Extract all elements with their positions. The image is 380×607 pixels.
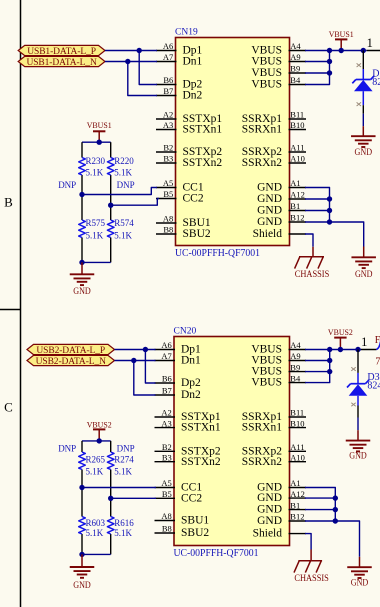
wire to off-sheet (black) (361, 349, 376, 351)
pin B2 (SSTXp2) (155, 450, 176, 452)
wire GND pin A12 (305, 198, 330, 200)
svg-text:B2: B2 (162, 442, 172, 452)
junction GND B12 (327, 219, 332, 224)
svg-text:GND: GND (257, 193, 282, 205)
pin B9 (VBUS) (289, 72, 307, 74)
svg-text:B11: B11 (290, 408, 304, 418)
junction VBUS bus B9 (327, 369, 332, 374)
pin B2 (SSTXp2) (156, 151, 177, 153)
wire CC1 from divider (82, 487, 156, 489)
pin A9 (VBUS) (289, 360, 307, 362)
svg-text:GND: GND (257, 182, 282, 194)
svg-text:5.1K: 5.1K (86, 528, 104, 538)
svg-text:SSRXn2: SSRXn2 (242, 157, 283, 169)
resistor R575 5.1K (81, 195, 83, 221)
junction on Dp1 wire (143, 347, 148, 352)
svg-text:A12: A12 (290, 190, 305, 200)
wire GND pin B1 (305, 509, 335, 511)
svg-text:GND: GND (73, 286, 91, 296)
svg-text:R575: R575 (86, 218, 106, 228)
svg-text:A7: A7 (161, 351, 171, 361)
svg-text:B11: B11 (290, 110, 304, 120)
junction GND B1 (327, 208, 332, 213)
pin B12 (GND) (289, 520, 307, 522)
pin A4 (VBUS) (289, 50, 307, 52)
junction bottom rail (79, 552, 84, 557)
wire divider bottom rail (82, 261, 111, 263)
junction VBUS bus A9 (327, 59, 332, 64)
svg-text:A1: A1 (290, 478, 300, 488)
svg-text:GND: GND (257, 515, 282, 527)
svg-text:SBU1: SBU1 (181, 515, 209, 527)
svg-text:A3: A3 (161, 418, 171, 428)
wire TVS anode to ground (362, 91, 364, 105)
svg-text:A6: A6 (161, 340, 171, 350)
svg-text:SBU2: SBU2 (181, 527, 209, 539)
pin B12 (GND) (289, 221, 307, 223)
svg-text:VBUS2: VBUS2 (328, 327, 353, 337)
svg-text:VBUS: VBUS (251, 67, 282, 79)
svg-text:5.1K: 5.1K (86, 466, 104, 476)
wire resistor top rail (82, 141, 111, 143)
junction CC1 (79, 192, 84, 197)
svg-text:B4: B4 (290, 373, 301, 383)
svg-text:B3: B3 (163, 154, 173, 164)
wire GND bus to ground (330, 222, 364, 247)
svg-text:1: 1 (361, 335, 367, 349)
sheet border zone divider (0, 309, 21, 311)
junction on Dp1 wire (137, 48, 142, 53)
pin A2 (SSTXp1) (155, 416, 176, 418)
pin A1 (GND) (289, 487, 307, 489)
svg-text:B3: B3 (162, 452, 172, 462)
pin B4 (VBUS) (289, 382, 307, 384)
svg-text:UC-00PFFH-QF7001: UC-00PFFH-QF7001 (174, 548, 259, 559)
wire GND pin B12 (305, 221, 330, 223)
ground GND (connector) (359, 566, 361, 568)
wire VBUS pin B4 (305, 51, 330, 85)
pin A8 (SBU1) (156, 222, 177, 224)
svg-text:A9: A9 (290, 351, 300, 361)
svg-text:CHASSIS: CHASSIS (294, 574, 329, 584)
svg-text:R574: R574 (114, 218, 134, 228)
wire GND pin A12 (305, 497, 335, 499)
svg-text:USB1-DATA-L_N: USB1-DATA-L_N (26, 58, 96, 68)
svg-text:A11: A11 (290, 143, 304, 153)
svg-text:824: 824 (367, 381, 380, 392)
svg-text:SSTXn1: SSTXn1 (181, 422, 221, 434)
wire to off-sheet (black) (367, 50, 380, 52)
svg-text:SSRXn1: SSRXn1 (242, 422, 283, 434)
svg-text:A10: A10 (290, 154, 305, 164)
pin B5 (CC2) (155, 497, 176, 499)
power port VBUS2 (right) (334, 337, 346, 339)
svg-text:B10: B10 (290, 418, 304, 428)
svg-text:C: C (4, 400, 13, 415)
pin A11 (SSRXp2) (289, 450, 307, 452)
pin B6 (Dp2) (155, 382, 176, 384)
svg-text:B9: B9 (290, 362, 300, 372)
junction at TVS branch (355, 347, 360, 352)
wire VBUS to TVS D33 (357, 350, 359, 373)
svg-text:A4: A4 (290, 340, 301, 350)
svg-text:B4: B4 (290, 75, 301, 85)
svg-text:VBUS1: VBUS1 (87, 120, 112, 130)
svg-text:Shield: Shield (253, 528, 283, 540)
junction GND A12 (333, 495, 338, 500)
wire VBUS pin B4 (305, 350, 330, 383)
pin B9 (VBUS) (289, 371, 307, 373)
svg-text:A5: A5 (163, 178, 173, 188)
svg-text:SSRXn2: SSRXn2 (242, 456, 283, 468)
connector CN20 UC-00PFFH-QF7001 (174, 337, 290, 546)
junction GND A12 (327, 196, 332, 201)
pin A6 (Dp1) (155, 349, 176, 351)
wire tap to Dp2 (139, 51, 157, 85)
junction VBUS bus B9 (327, 70, 332, 75)
svg-text:B5: B5 (162, 489, 172, 499)
svg-text:B9: B9 (290, 64, 300, 74)
wire GND pin A1 (305, 188, 330, 223)
svg-text:B5: B5 (163, 189, 173, 199)
svg-text:DNP: DNP (117, 443, 135, 453)
svg-text:GND: GND (257, 504, 282, 516)
wire Shield to chassis (305, 534, 311, 550)
resistor R230 5.1K (DNP) (81, 142, 83, 157)
pin B1 (GND) (289, 210, 307, 212)
wire GND pin A1 (305, 488, 335, 522)
pin A7 (Dn1) (155, 360, 176, 362)
pin B4 (VBUS) (289, 84, 307, 86)
svg-text:CN20: CN20 (174, 327, 197, 337)
svg-text:Dn1: Dn1 (181, 355, 201, 367)
svg-text:GND: GND (355, 147, 373, 157)
svg-text:B7: B7 (163, 86, 173, 96)
pin A3 (SSTXn1) (156, 129, 177, 131)
junction GND B1 (333, 507, 338, 512)
junction at power stub (339, 48, 344, 53)
pin A10 (SSRXn2) (289, 162, 307, 164)
junction top rail (97, 438, 102, 443)
svg-text:R230: R230 (86, 156, 106, 166)
svg-text:A1: A1 (290, 178, 300, 188)
wire GND pin B12 (305, 520, 335, 522)
pin A8 (SBU1) (155, 520, 176, 522)
power port VBUS1 (left) (93, 130, 105, 132)
svg-text:A8: A8 (163, 214, 173, 224)
svg-text:A2: A2 (161, 408, 171, 418)
pin B10 (SSRXn1) (289, 427, 307, 429)
svg-text:SSTXn1: SSTXn1 (183, 124, 223, 136)
connector CN19 UC-00PFFH-QF7001 (176, 38, 290, 246)
svg-text:B2: B2 (163, 143, 173, 153)
pin B3 (SSTXn2) (155, 461, 176, 463)
pin A4 (VBUS) (289, 349, 307, 351)
svg-text:Dn2: Dn2 (181, 389, 201, 401)
junction on Dn1 wire (125, 59, 130, 64)
pin B5 (CC2) (156, 198, 177, 200)
svg-text:R616: R616 (114, 518, 134, 528)
wire VBUS to TVS D24 (362, 51, 364, 70)
svg-text:Dp2: Dp2 (181, 377, 201, 389)
wire TVS anode to ground (357, 396, 359, 406)
pin B7 (Dn2) (156, 95, 177, 97)
svg-text:GND: GND (257, 205, 282, 217)
svg-text:CC2: CC2 (183, 193, 204, 205)
off-sheet connector arc (376, 342, 380, 350)
wire resistor top rail (82, 440, 111, 442)
wire CC2 from divider (111, 199, 159, 206)
svg-text:R265: R265 (86, 454, 106, 464)
port USB2-DATA-L_N (27, 355, 115, 365)
svg-text:GND: GND (351, 577, 369, 587)
wire USB1-DATA-L_N to Dn1 (105, 61, 157, 63)
svg-text:USB2-DATA-L_P: USB2-DATA-L_P (36, 346, 105, 356)
svg-text:CC2: CC2 (181, 492, 202, 504)
svg-text:GND: GND (73, 580, 91, 590)
svg-text:B1: B1 (290, 201, 300, 211)
svg-text:R220: R220 (114, 156, 134, 166)
pin A3 (SSTXn1) (155, 427, 176, 429)
wire VBUS pin B9 (305, 72, 330, 74)
svg-text:B8: B8 (163, 225, 173, 235)
svg-text:SSTXn2: SSTXn2 (183, 157, 223, 169)
svg-text:VBUS2: VBUS2 (87, 419, 112, 429)
svg-text:5.1K: 5.1K (114, 466, 132, 476)
svg-text:A5: A5 (161, 478, 171, 488)
junction on Dn1 wire (131, 358, 136, 363)
svg-text:B8: B8 (162, 524, 172, 534)
wire USB2-DATA-L_P to Dp1 (115, 349, 156, 351)
svg-text:Dn1: Dn1 (183, 56, 203, 68)
svg-text:UC-00PFFH-QF7001: UC-00PFFH-QF7001 (175, 248, 260, 259)
pin B11 (SSRXp1) (289, 416, 307, 418)
svg-text:VBUS: VBUS (251, 56, 282, 68)
junction GND B12 (333, 518, 338, 523)
svg-text:SSTXn2: SSTXn2 (181, 456, 221, 468)
svg-text:B12: B12 (290, 512, 304, 522)
svg-text:GND: GND (257, 492, 282, 504)
pin A12 (GND) (289, 497, 307, 499)
wire CC2 from divider (111, 497, 156, 499)
pin A5 (CC1) (155, 487, 176, 489)
svg-text:B7: B7 (162, 386, 172, 396)
pin B7 (Dn2) (155, 394, 176, 396)
svg-text:824: 824 (372, 77, 380, 88)
svg-text:5.1K: 5.1K (114, 167, 132, 177)
junction VBUS bus A4 (327, 347, 332, 352)
svg-text:GND: GND (355, 269, 373, 279)
svg-text:B6: B6 (163, 75, 173, 85)
wire VBUS2 rail (330, 349, 361, 351)
svg-text:1: 1 (367, 36, 373, 50)
svg-text:R603: R603 (86, 518, 106, 528)
pin Shield (Shield) (289, 233, 307, 235)
svg-text:A12: A12 (290, 489, 305, 499)
junction CC1 (79, 485, 84, 490)
junction at power stub (338, 347, 343, 352)
svg-text:VBUS1: VBUS1 (329, 29, 354, 39)
resistor R274 5.1K (DNP) (110, 441, 112, 452)
svg-text:USB2-DATA-L_N: USB2-DATA-L_N (36, 357, 106, 367)
svg-text:A7: A7 (163, 52, 173, 62)
wire USB2-DATA-L_N to Dn1 (115, 360, 156, 362)
ground GND (connector) (363, 256, 365, 258)
svg-text:Shield: Shield (253, 228, 283, 240)
junction VBUS bus A9 (327, 358, 332, 363)
pin A11 (SSRXp2) (289, 151, 307, 153)
pin Shield (Shield) (289, 533, 307, 535)
TVS zener diode D24 (356, 79, 371, 81)
pin B8 (SBU2) (156, 233, 177, 235)
ground GND (divider) (81, 554, 83, 567)
svg-text:5.1K: 5.1K (114, 528, 132, 538)
wire CC1 from divider (82, 188, 157, 195)
svg-text:B6: B6 (162, 374, 172, 384)
resistor R574 5.1K (110, 205, 112, 220)
svg-text:GND: GND (257, 216, 282, 228)
wire VBUS pin A9 (305, 61, 330, 63)
svg-text:USB1-DATA-L_P: USB1-DATA-L_P (27, 47, 96, 57)
svg-text:A2: A2 (163, 110, 173, 120)
wire tap to Dp2 (145, 350, 155, 384)
svg-text:5.1K: 5.1K (86, 231, 104, 241)
ground GND (TVS) (357, 430, 359, 440)
pin A5 (CC1) (156, 187, 177, 189)
junction bottom rail (79, 260, 84, 265)
ground GND (TVS) (362, 126, 364, 136)
svg-text:SSRXn1: SSRXn1 (242, 124, 283, 136)
junction at TVS branch (361, 48, 366, 53)
power port VBUS1 (right) (335, 38, 347, 40)
svg-text:CN19: CN19 (175, 28, 198, 38)
wire Shield to chassis (305, 234, 313, 247)
wire tap to Dn2 (128, 62, 157, 96)
svg-text:B10: B10 (290, 120, 304, 130)
pin B8 (SBU2) (155, 532, 176, 534)
svg-text:F: F (375, 335, 380, 346)
pin A10 (SSRXn2) (289, 461, 307, 463)
wire USB1-DATA-L_P to Dp1 (105, 50, 157, 52)
svg-text:7-: 7- (375, 357, 380, 368)
svg-text:A10: A10 (290, 452, 305, 462)
svg-text:A4: A4 (290, 41, 301, 51)
svg-text:A3: A3 (163, 120, 173, 130)
svg-text:VBUS: VBUS (251, 377, 282, 389)
pin B6 (Dp2) (156, 84, 177, 86)
svg-text:A9: A9 (290, 52, 300, 62)
junction CC2 (108, 496, 113, 501)
pin A2 (SSTXp1) (156, 118, 177, 120)
resistor R265 5.1K (DNP) (81, 441, 83, 452)
svg-text:CHASSIS: CHASSIS (295, 270, 330, 280)
junction CC2 (108, 203, 113, 208)
port USB1-DATA-L_N (18, 56, 105, 66)
ground GND (divider) (81, 262, 83, 274)
wire VBUS pin A9 (305, 360, 330, 362)
svg-text:B: B (4, 195, 13, 210)
power port VBUS2 (left) (93, 428, 105, 430)
svg-text:DNP: DNP (58, 443, 76, 453)
pin B11 (SSRXp1) (289, 118, 307, 120)
junction top rail (97, 140, 102, 145)
wire divider bottom rail (82, 553, 111, 555)
svg-text:B12: B12 (290, 213, 304, 223)
pin B1 (GND) (289, 509, 307, 511)
pin B10 (SSRXn1) (289, 129, 307, 131)
svg-text:DNP: DNP (117, 180, 135, 190)
chassis ground CHASSIS (310, 550, 312, 561)
sheet border vertical line (20, 0, 22, 607)
svg-text:A11: A11 (290, 442, 304, 452)
pin A7 (Dn1) (156, 61, 177, 63)
svg-text:A6: A6 (163, 41, 173, 51)
svg-text:5.1K: 5.1K (86, 167, 104, 177)
chassis ground CHASSIS (312, 247, 314, 257)
resistor R616 5.1K (110, 498, 112, 516)
svg-text:A8: A8 (161, 511, 171, 521)
pin B3 (SSTXn2) (156, 162, 177, 164)
wire GND bus to ground (335, 521, 359, 557)
wire VBUS1 rail (330, 50, 367, 52)
junction VBUS bus A4 (327, 48, 332, 53)
svg-text:GND: GND (349, 450, 367, 460)
TVS zener diode D33 (351, 383, 366, 385)
wire VBUS pin A4 (305, 349, 330, 351)
wire VBUS pin B9 (305, 371, 330, 373)
pin A6 (Dp1) (156, 50, 177, 52)
wire GND pin B1 (305, 210, 330, 212)
svg-text:5.1K: 5.1K (114, 231, 132, 241)
svg-text:VBUS: VBUS (251, 79, 282, 91)
pin A1 (GND) (289, 187, 307, 189)
svg-text:Dn2: Dn2 (183, 90, 203, 102)
svg-text:SBU2: SBU2 (183, 228, 211, 240)
resistor R603 5.1K (81, 488, 83, 517)
port USB2-DATA-L_P (27, 344, 115, 354)
svg-text:R274: R274 (114, 454, 134, 464)
wire tap to Dn2 (134, 361, 156, 396)
pin A9 (VBUS) (289, 61, 307, 63)
svg-text:B1: B1 (290, 500, 300, 510)
svg-text:DNP: DNP (58, 180, 76, 190)
wire VBUS pin A4 (305, 50, 330, 52)
port USB1-DATA-L_P (18, 45, 105, 55)
resistor R220 5.1K (DNP) (110, 142, 112, 157)
pin A12 (GND) (289, 198, 307, 200)
